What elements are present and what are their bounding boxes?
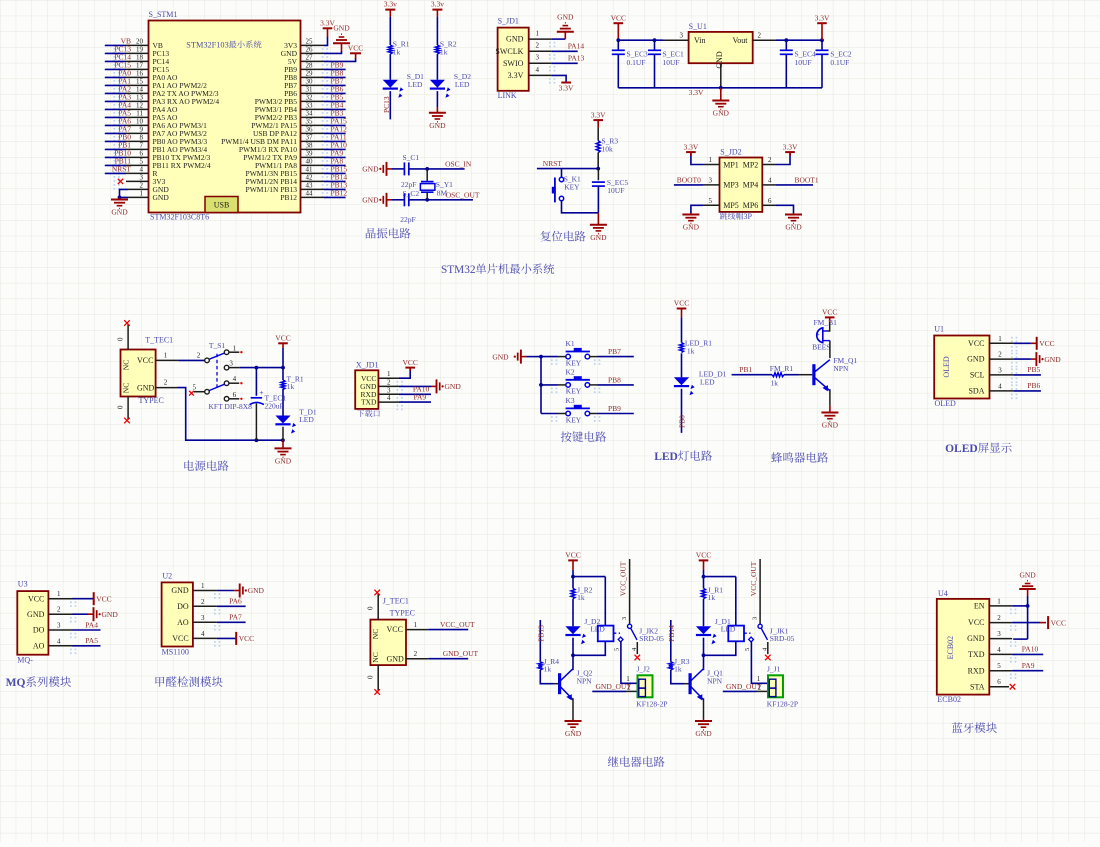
svg-text:GND: GND <box>967 634 985 643</box>
wire U2 pin4 to VCC <box>217 637 236 639</box>
svg-text:3.3V: 3.3V <box>783 142 798 151</box>
pin 4 (VCC) of U2 <box>172 630 220 647</box>
LED LED_D1 <box>674 370 727 396</box>
svg-text:13: 13 <box>136 94 144 102</box>
svg-text:AO: AO <box>33 641 45 650</box>
pin 3 (DO) of U3 <box>33 622 76 639</box>
relay switch J_JK2 SRD-05 <box>613 559 664 660</box>
svg-text:5: 5 <box>193 383 197 391</box>
svg-text:GND: GND <box>1019 571 1036 580</box>
svg-text:3.3v: 3.3v <box>384 0 397 9</box>
pin 11 (PA5 AO) left of U_S_STM1 <box>105 109 178 126</box>
svg-text:14: 14 <box>136 86 144 94</box>
svg-text:3.3V: 3.3V <box>591 110 606 119</box>
svg-text:J_J1: J_J1 <box>767 665 781 674</box>
svg-text:GND: GND <box>153 193 170 202</box>
LED T_D1 <box>275 408 317 434</box>
capacitor S_C1 22pF <box>392 153 419 189</box>
svg-text:1k: 1k <box>440 48 448 57</box>
wire S_JD1 pin1 to GND <box>551 38 565 40</box>
wire S_JD2 pin6 to ground <box>762 205 793 213</box>
pin 10 (PA6 AO PWM3/1) left of U_S_STM1 <box>105 117 207 134</box>
svg-text:NRST: NRST <box>112 165 132 174</box>
svg-text:4: 4 <box>387 394 391 402</box>
pin 2 (VCC) of U4 <box>968 614 1016 631</box>
svg-text:GND: GND <box>445 382 462 391</box>
svg-text:15: 15 <box>136 78 144 86</box>
svg-text:OLED: OLED <box>942 356 951 378</box>
wire U1 pin1 to VCC <box>1014 342 1037 344</box>
svg-text:3: 3 <box>709 176 713 184</box>
svg-text:KEY: KEY <box>566 415 582 424</box>
svg-text:0: 0 <box>117 337 125 341</box>
power port 3.3v above S_R1 <box>384 0 397 17</box>
svg-text:GND: GND <box>557 12 574 21</box>
wire PB6 on U1 pin4 <box>1014 381 1041 391</box>
svg-text:T_S1: T_S1 <box>209 341 226 350</box>
wire 3.3v to S_R1 <box>389 17 391 45</box>
svg-text:4: 4 <box>201 630 205 638</box>
svg-text:7: 7 <box>140 142 144 150</box>
svg-text:VCC: VCC <box>172 634 188 643</box>
pin 2 (GND) of U3 <box>27 606 76 623</box>
svg-text:MP4: MP4 <box>743 181 759 190</box>
wire T_R1 to T_D1 <box>282 389 284 416</box>
svg-text:STM32F103: STM32F103 <box>186 41 228 50</box>
pin 18 (PC14) left of U_S_STM1 <box>105 53 170 70</box>
svg-text:GND: GND <box>248 586 265 595</box>
svg-text:MQ-: MQ- <box>17 656 33 665</box>
resistor FM_R1 1k <box>770 364 794 388</box>
wire PA13 on S_JD1 pin3 <box>551 53 584 63</box>
svg-text:2: 2 <box>627 683 631 691</box>
svg-text:33: 33 <box>306 101 314 109</box>
wire J_Q2 emitter to ground <box>572 698 574 719</box>
pin 41 (PWM1/3N PB15) right of U_S_STM1 <box>246 165 348 182</box>
ground right of U3 <box>88 607 118 621</box>
svg-text:0: 0 <box>367 675 375 679</box>
wire T_TEC1 GND pin2 to bottom rail <box>156 379 285 443</box>
wire VCC to T_R1 <box>282 348 284 380</box>
pins 3/4 (MP3 MP4) of S_JD2 <box>709 176 773 189</box>
wire VCC to buzzer pin1 <box>828 322 830 331</box>
svg-text:1: 1 <box>998 335 1002 343</box>
svg-text:OLED: OLED <box>935 399 957 408</box>
svg-text:ECB02: ECB02 <box>937 695 961 704</box>
capacitor S_EC1 10UF <box>648 40 684 88</box>
svg-text:LED: LED <box>700 377 715 386</box>
power port 3.3V of reset circuit <box>591 110 606 127</box>
wire GND_OUT to connector J_J2 pin2 <box>592 682 637 691</box>
svg-text:8: 8 <box>140 134 144 142</box>
key K1 <box>541 339 600 367</box>
power port VCC right of U2 <box>236 632 254 645</box>
wire VCC node of relay J_JK2 <box>571 570 605 626</box>
power port 3.3V below S_JD1 pin4 <box>559 83 574 93</box>
svg-text:6: 6 <box>997 678 1001 686</box>
svg-text:GND: GND <box>387 654 405 663</box>
connector X_JD1 download port <box>355 360 380 417</box>
svg-text:PA7: PA7 <box>229 613 242 622</box>
svg-text:USB: USB <box>214 201 230 210</box>
wire PA5 on U3 pin4 <box>73 636 101 646</box>
wire VCC rail to Vin pin 3 <box>616 28 688 42</box>
svg-text:FM_R1: FM_R1 <box>770 364 794 373</box>
svg-text:KEY: KEY <box>564 182 580 191</box>
connector J_J2 KF128-2P <box>636 665 667 709</box>
svg-text:K2: K2 <box>566 367 575 376</box>
svg-text:GND: GND <box>492 352 509 361</box>
svg-text:PB5: PB5 <box>1027 365 1040 374</box>
svg-text:29: 29 <box>306 69 314 77</box>
svg-text:VCC: VCC <box>387 625 403 634</box>
svg-text:+: + <box>260 389 264 397</box>
pin 34 (PWM2/2 PB3) right of U_S_STM1 <box>255 109 346 126</box>
svg-text:6: 6 <box>140 150 144 158</box>
wire T_D1 to bottom rail <box>282 427 284 440</box>
svg-text:5: 5 <box>744 648 751 651</box>
svg-text:GND: GND <box>785 223 802 232</box>
svg-text:43: 43 <box>306 181 314 189</box>
wire PA6 on U2 pin2 <box>217 597 246 607</box>
pins 1/2 (MP1 MP2) of S_JD2 <box>709 156 773 169</box>
power port VCC of buzzer circuit <box>822 308 837 322</box>
svg-text:LED: LED <box>408 80 423 89</box>
svg-text:STM32F103C8T6: STM32F103C8T6 <box>150 213 209 222</box>
wire PB9 from K3 <box>590 404 634 414</box>
svg-text:16: 16 <box>136 70 144 78</box>
svg-text:PA9: PA9 <box>414 393 427 402</box>
svg-text:PB6: PB6 <box>1027 381 1040 390</box>
svg-text:T_TEC1: T_TEC1 <box>145 336 173 345</box>
pin 3 (GND) of U4 <box>967 630 1016 647</box>
pin 2 (GND) of U1 OLED <box>967 351 1017 368</box>
wire BOOT0 on S_JD2 pin3 <box>674 175 720 185</box>
svg-text:SWIO: SWIO <box>503 59 524 68</box>
svg-text:KF128-2P: KF128-2P <box>636 700 667 709</box>
title power circuit <box>184 460 228 471</box>
svg-text:VCC: VCC <box>696 551 711 560</box>
svg-text:NPN: NPN <box>707 676 723 685</box>
svg-text:GND_OUT: GND_OUT <box>596 682 632 691</box>
wire below S_D2 <box>436 91 438 107</box>
wire PB0 below LED_D1 <box>678 389 687 433</box>
svg-text:J_TEC1: J_TEC1 <box>383 597 409 606</box>
svg-text:VCC: VCC <box>402 358 417 367</box>
wire J_R4 to J_Q2 base <box>540 670 558 684</box>
relay switch J_JK1 SRD-05 <box>744 559 795 660</box>
power port VCC right of U3 <box>94 592 112 605</box>
wire PB1 to FM_R1 <box>732 365 772 375</box>
LED S_D1 <box>383 72 424 98</box>
svg-text:34: 34 <box>306 109 314 117</box>
svg-text:3P: 3P <box>744 212 753 221</box>
svg-text:ECB02: ECB02 <box>946 636 955 660</box>
pin 31 (PB6) right of U_S_STM1 <box>284 85 346 102</box>
svg-text:MP2: MP2 <box>743 160 759 169</box>
wire 3.3v to S_R2 <box>436 17 438 45</box>
wire OSC_OUT <box>409 190 480 201</box>
pin 33 (PWM3/1 PB4) right of U_S_STM1 <box>255 101 346 118</box>
pin 5 (RXD) of U4 <box>968 662 1017 679</box>
svg-text:VCC_OUT: VCC_OUT <box>440 620 475 629</box>
pin 19 (PC13) left of U_S_STM1 <box>105 45 170 62</box>
svg-text:KF128-2P: KF128-2P <box>767 700 798 709</box>
svg-text:VCC: VCC <box>275 334 290 343</box>
svg-text:PA14: PA14 <box>568 42 585 51</box>
svg-text:PA9: PA9 <box>1022 661 1035 670</box>
capacitor S_EC2 0.1UF <box>816 40 852 88</box>
regulator U_S_U1 <box>689 22 753 69</box>
wire U3 pin1 to VCC <box>73 598 94 600</box>
wire OSC_IN <box>409 159 472 170</box>
wire J_Q1 collector <box>703 668 705 670</box>
pin 2 (SWCLK) of S_JD1 <box>495 42 555 60</box>
pin 28 (PB9) right of U_S_STM1 <box>284 61 346 78</box>
svg-text:3: 3 <box>140 174 144 182</box>
svg-text:3: 3 <box>536 54 540 62</box>
connector S_JD2 jumper header <box>720 148 763 221</box>
svg-text:K3: K3 <box>566 396 575 405</box>
wire GND_OUT on J_TEC1 pin2 <box>406 649 479 659</box>
svg-text:41: 41 <box>306 165 314 173</box>
svg-text:PB7: PB7 <box>608 347 621 356</box>
ground symbol GND above MCU right <box>333 24 350 52</box>
svg-text:VCC: VCC <box>968 618 984 627</box>
wire S_K1 to bottom node <box>562 201 599 213</box>
svg-text:3: 3 <box>997 630 1001 638</box>
svg-text:32: 32 <box>306 93 314 101</box>
resistor T_R1 1k <box>281 375 304 391</box>
ground of reset circuit <box>590 213 607 242</box>
svg-text:3: 3 <box>680 31 684 39</box>
pin 29 (PB8) right of U_S_STM1 <box>284 69 346 86</box>
svg-text:9: 9 <box>140 126 144 134</box>
svg-text:3: 3 <box>229 359 233 367</box>
wire FM_Q1 emitter to ground <box>829 389 831 405</box>
power port VCC above X_JD1 <box>402 358 417 371</box>
ground of relay J_JK1 <box>695 719 712 738</box>
pin 36 (USB DP PA12) right of U_S_STM1 <box>253 125 347 142</box>
svg-text:SCL: SCL <box>970 371 985 380</box>
pin 8 (PB0 AO PWM3/3) left of U_S_STM1 <box>105 133 208 150</box>
svg-text:1: 1 <box>709 156 713 164</box>
title MQ series module <box>6 676 71 689</box>
svg-text:NC: NC <box>122 360 131 370</box>
wire PA9 on X_JD1 pin4 <box>399 393 431 403</box>
pin 26 (GND) right of U_S_STM1 <box>281 45 342 61</box>
svg-text:S_U1: S_U1 <box>689 22 707 31</box>
connector J_TEC1 TYPEC <box>370 597 415 666</box>
pin 2 (GND) of X_JD1 <box>360 378 403 394</box>
svg-text:NC: NC <box>371 652 380 662</box>
capacitor S_EC4 10UF <box>780 40 816 88</box>
svg-text:VCC: VCC <box>968 339 984 348</box>
svg-text:PB11 RX PWM2/4: PB11 RX PWM2/4 <box>153 161 211 170</box>
svg-text:SRD-05: SRD-05 <box>770 634 795 643</box>
svg-text:GND: GND <box>1044 355 1061 364</box>
transistor J_Q1 NPN <box>690 668 723 700</box>
wire PA10 on X_JD1 pin3 <box>399 385 431 395</box>
ground of buzzer circuit <box>821 405 838 429</box>
svg-text:S_C2: S_C2 <box>403 189 420 198</box>
svg-text:1: 1 <box>233 344 237 352</box>
ground right of X_JD1 <box>431 379 461 393</box>
svg-text:VCC: VCC <box>565 551 580 560</box>
pin 7 (PB1 AO PWM3/4) left of U_S_STM1 <box>105 141 208 158</box>
pin 42 (PWM1/2N PB14) right of U_S_STM1 <box>246 173 348 190</box>
svg-text:17: 17 <box>136 62 144 70</box>
wire PB7 from K1 <box>590 347 634 357</box>
svg-text:GND: GND <box>715 51 724 69</box>
ground left of S_C1 <box>362 162 392 176</box>
svg-text:1k: 1k <box>771 379 779 388</box>
svg-text:GND: GND <box>429 121 446 130</box>
svg-text:VCC: VCC <box>1039 339 1054 348</box>
wire U2 pin1 to GND <box>217 590 234 592</box>
resistor J_R1 1k <box>702 586 724 603</box>
svg-text:GND: GND <box>362 165 379 174</box>
module U1 OLED <box>934 325 989 409</box>
svg-text:SWCLK: SWCLK <box>495 47 523 56</box>
resistor S_R1 1k <box>388 40 409 57</box>
svg-text:FM_B1: FM_B1 <box>814 318 838 327</box>
pin 3 (SCL) of U1 OLED <box>970 366 1017 383</box>
svg-text:OSC_OUT: OSC_OUT <box>446 190 480 199</box>
svg-text:1k: 1k <box>708 593 716 602</box>
svg-text:DO: DO <box>177 602 189 611</box>
wire FM_R1 to FM_Q1 base <box>784 374 812 376</box>
svg-text:LED: LED <box>654 451 678 463</box>
svg-text:19: 19 <box>136 46 144 54</box>
capacitor S_EC5 10UF <box>592 169 629 213</box>
svg-text:EN: EN <box>974 602 985 611</box>
svg-text:4: 4 <box>997 646 1001 654</box>
svg-text:MQ: MQ <box>6 677 26 689</box>
power port VCC right of U4 <box>1048 616 1066 629</box>
svg-text:PA5: PA5 <box>85 636 98 645</box>
svg-text:4: 4 <box>768 176 772 184</box>
wire coil bottom to transistor node of J_JK2 <box>571 638 605 669</box>
svg-text:NPN: NPN <box>833 364 849 373</box>
svg-text:PB12: PB12 <box>331 189 348 198</box>
svg-text:5: 5 <box>140 158 144 166</box>
svg-text:28: 28 <box>306 61 314 69</box>
power port VCC right of U1 <box>1037 337 1055 350</box>
wire S_R1 to S_D1 <box>389 54 391 80</box>
LED J_D2 <box>565 617 605 644</box>
svg-text:GND: GND <box>111 208 128 217</box>
connector S_JD1 LINK header <box>498 17 529 100</box>
svg-text:1: 1 <box>536 30 540 38</box>
title OLED display <box>945 443 1012 455</box>
power port 3.3V right of S_JD2 <box>783 142 798 156</box>
buzzer FM_B1 BEES <box>812 318 837 352</box>
svg-text:GND: GND <box>506 35 524 44</box>
pin 14 (PA2 TX AO PWM2/3) left of U_S_STM1 <box>105 85 219 102</box>
ground above U4 <box>1019 571 1036 597</box>
svg-text:TYPEC: TYPEC <box>139 396 164 405</box>
key K2 <box>541 367 600 395</box>
svg-text:PB14: PB14 <box>667 625 676 642</box>
pin 1 (GND) of S_JD1 <box>506 30 555 48</box>
svg-text:DO: DO <box>33 626 45 635</box>
resistor LED_R1 1k <box>680 338 713 355</box>
svg-text:42: 42 <box>306 173 314 181</box>
pin 3 (3V3) left of U_S_STM1 <box>114 174 166 190</box>
svg-text:VCC: VCC <box>611 13 626 22</box>
ground symbol below MCU left pins <box>111 197 128 216</box>
module U2 MS1100 <box>162 571 193 656</box>
wire switch pin3 to VCC rail node <box>229 366 285 370</box>
svg-text:1: 1 <box>414 621 418 629</box>
no-ERC marker on pin 3 <box>118 179 123 184</box>
svg-text:OSC_IN: OSC_IN <box>445 159 472 168</box>
pin 20 (VB) left of U_S_STM1 <box>105 37 163 54</box>
svg-text:37: 37 <box>306 133 314 141</box>
stub pin 0 bottom of J_TEC1 <box>367 665 380 695</box>
pin 1 (GND) of U2 <box>171 582 220 599</box>
wire buzzer pin2 to FM_Q1 collector <box>829 341 831 359</box>
svg-text:MP5: MP5 <box>723 201 739 210</box>
svg-text:VCC: VCC <box>674 299 689 308</box>
svg-text:6: 6 <box>233 391 237 399</box>
crystal S_Y1 8M <box>420 169 453 200</box>
wire X_JD1 pin2 to GND <box>399 385 431 387</box>
no-ERC marker on U4 STA pin6 <box>1010 684 1016 690</box>
svg-text:30: 30 <box>306 77 314 85</box>
stub pin 0 top of J_TEC1 <box>367 590 380 620</box>
svg-text:GND: GND <box>683 223 700 232</box>
svg-text:VCC: VCC <box>822 308 837 317</box>
svg-text:2: 2 <box>387 378 391 386</box>
svg-text:40: 40 <box>306 157 314 165</box>
svg-text:VCC_OUT: VCC_OUT <box>749 561 758 596</box>
svg-text:VCC: VCC <box>28 594 44 603</box>
wire PA4 on U3 pin3 <box>73 620 101 630</box>
wire PB14 to J_R3 <box>667 620 676 662</box>
pin 32 (PWM3/2 PB5) right of U_S_STM1 <box>255 93 346 110</box>
svg-text:PB8: PB8 <box>608 375 621 384</box>
svg-text:NPN: NPN <box>577 676 593 685</box>
pin 25 (3V3) right of U_S_STM1 <box>284 37 328 54</box>
svg-text:GND: GND <box>590 233 607 242</box>
svg-text:2: 2 <box>758 31 762 39</box>
wire U1 pin2 to GND <box>1014 358 1031 360</box>
svg-text:6: 6 <box>768 197 772 205</box>
svg-text:GND_OUT: GND_OUT <box>443 649 479 658</box>
pin 12 (PA4 AO) left of U_S_STM1 <box>105 101 178 118</box>
svg-text:1: 1 <box>164 351 168 359</box>
transistor J_Q2 NPN <box>560 668 593 700</box>
svg-text:MS1100: MS1100 <box>162 648 189 657</box>
svg-text:MP6: MP6 <box>743 201 759 210</box>
svg-text:GND: GND <box>967 355 985 364</box>
svg-text:2: 2 <box>998 351 1002 359</box>
svg-text:2: 2 <box>197 351 201 359</box>
svg-text:GND: GND <box>565 729 582 738</box>
svg-text:38: 38 <box>306 141 314 149</box>
svg-text:5: 5 <box>997 662 1001 670</box>
wire LED_R1 to LED_D1 <box>681 353 683 377</box>
svg-text:X_JD1: X_JD1 <box>356 360 379 369</box>
svg-text:4: 4 <box>140 166 144 174</box>
pin 4 (TXD) of U4 <box>968 646 1016 663</box>
pin 2 (GND) left of U_S_STM1 <box>128 182 169 194</box>
title LED circuit <box>654 450 712 463</box>
svg-text:VCC: VCC <box>96 594 111 603</box>
svg-text:3.3V: 3.3V <box>689 88 704 97</box>
